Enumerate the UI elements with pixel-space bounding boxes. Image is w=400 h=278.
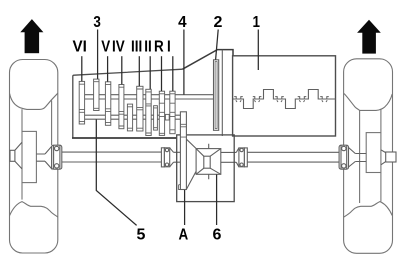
- svg-text:3: 3: [93, 14, 100, 31]
- svg-text:IV: IV: [112, 39, 125, 56]
- svg-text:I: I: [167, 39, 171, 56]
- svg-text:4: 4: [178, 14, 187, 31]
- svg-text:5: 5: [137, 227, 146, 244]
- svg-text:VI: VI: [73, 38, 87, 55]
- svg-text:III: III: [131, 39, 142, 56]
- svg-text:2: 2: [214, 14, 223, 31]
- svg-text:R: R: [154, 39, 164, 56]
- svg-text:1: 1: [252, 14, 259, 31]
- svg-text:V: V: [101, 39, 110, 56]
- svg-text:6: 6: [212, 227, 221, 244]
- svg-text:A: A: [179, 227, 189, 244]
- svg-text:II: II: [144, 39, 151, 56]
